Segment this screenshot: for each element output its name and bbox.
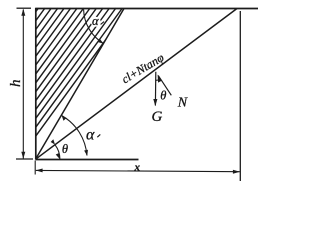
alpha arc at toe <box>62 116 87 156</box>
hatched slip wedge fill <box>0 8 129 162</box>
svg-text:α: α <box>86 127 95 144</box>
wedge hypotenuse (slope face) <box>36 9 125 160</box>
svg-text:x: x <box>133 162 140 174</box>
svg-text:G: G <box>151 109 162 125</box>
h dimension top tick <box>17 7 32 9</box>
wedge vertical face (left edge) <box>35 8 37 160</box>
right dimension extension line <box>239 11 241 181</box>
svg-text:θ: θ <box>160 89 166 103</box>
svg-text:h: h <box>8 79 24 87</box>
svg-text:N: N <box>177 96 188 111</box>
force G arrow (weight, downward) <box>154 72 156 106</box>
top ground surface line <box>35 8 258 10</box>
force N arrow (normal to slip plane, pointing up-left) <box>158 75 171 95</box>
slip plane diagonal (toe to surface) <box>36 9 238 160</box>
x dimension line with arrowheads <box>36 170 240 171</box>
theta arc at toe <box>55 145 60 159</box>
theta arc of force diagram <box>156 79 161 81</box>
bottom ground line <box>36 159 139 161</box>
h dimension line with arrowheads <box>22 10 24 159</box>
svg-text:α: α <box>92 14 99 28</box>
toe extension line below ground <box>34 161 36 175</box>
label alpha at crest with dash (white backing) <box>91 17 101 27</box>
h dimension bottom tick <box>16 158 33 160</box>
alpha arc at crest (top vertex) <box>84 10 104 44</box>
svg-text:θ: θ <box>62 142 68 156</box>
